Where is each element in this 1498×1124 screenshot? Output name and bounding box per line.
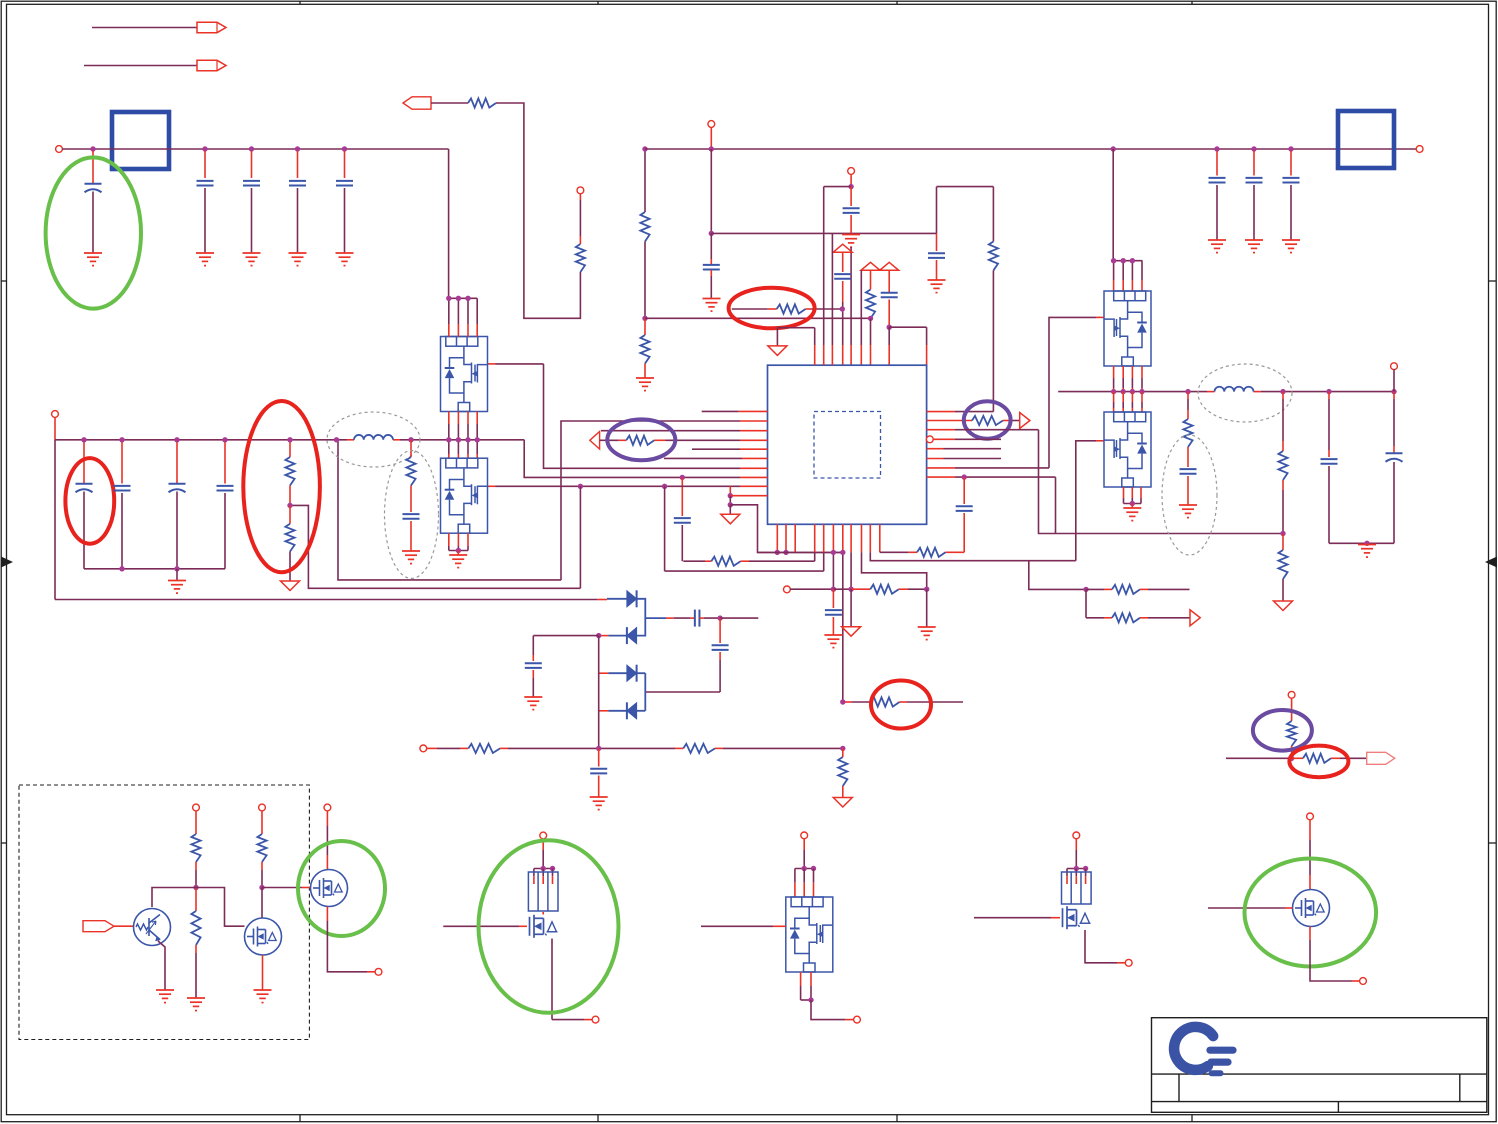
feedback divider x1283 top	[1282, 392, 1284, 399]
ground	[1208, 240, 1226, 253]
IC left pin row 9 from Q-bottom gate	[488, 485, 496, 487]
capacitor x533 branch	[533, 635, 598, 637]
ground	[84, 253, 102, 266]
inductor L2	[1215, 387, 1254, 392]
inductor L1	[354, 435, 393, 440]
resistor R22	[261, 811, 263, 834]
capacitor	[1290, 151, 1292, 176]
title block	[1152, 1018, 1487, 1113]
junction	[1214, 146, 1219, 151]
diode D3	[599, 672, 609, 674]
wire x861	[860, 270, 862, 345]
node terminal	[1360, 978, 1367, 985]
ground	[1245, 240, 1263, 253]
output flag	[1190, 610, 1200, 626]
IC top pin 1 riser + gnd flag	[814, 328, 816, 345]
node terminal	[1125, 959, 1132, 966]
diode D1	[607, 598, 627, 600]
diode D2	[627, 628, 637, 644]
IC left pin row 10 net	[729, 486, 731, 495]
junction	[1251, 146, 1256, 151]
MOSFET M2 (green circled)	[326, 811, 328, 826]
riser to low-side gate right	[1076, 441, 1096, 561]
capacitor C13	[224, 442, 226, 484]
wire y543	[1329, 542, 1394, 544]
wire y327 to corner pin	[889, 326, 926, 328]
IC bottom pin x861	[861, 524, 863, 552]
capacitor C5	[344, 151, 346, 178]
feedback divider x1283 bottom	[1282, 534, 1284, 551]
wire row10 to y552	[730, 505, 843, 553]
ground	[243, 253, 261, 266]
IC U1 thermal pad (dashed)	[814, 412, 881, 479]
resistor chain x411	[410, 440, 412, 457]
gnd flag x851	[850, 589, 852, 627]
capacitor at x851	[850, 187, 852, 206]
junction	[295, 146, 300, 151]
transistor Q10 (BJT)	[134, 909, 171, 946]
capacitor C11	[121, 442, 123, 484]
IC left pin row 2 with riser	[561, 421, 740, 580]
IC right pin E stub	[927, 448, 944, 450]
MOSFET M6 (green circled bottom right)	[1307, 813, 1314, 820]
green ellipse highlight M3	[479, 840, 619, 1013]
junction	[249, 146, 254, 151]
capacitor x1329	[1328, 392, 1330, 399]
MOSFET M3 (green ellipse bottom)	[540, 832, 547, 839]
left bus down x55	[54, 440, 56, 600]
wire x842 mid	[840, 699, 845, 704]
ground	[842, 235, 860, 248]
ground	[449, 555, 467, 568]
node terminal right	[1416, 146, 1423, 153]
dashed box	[19, 785, 309, 1040]
IC left pin row 3	[601, 430, 740, 432]
riser x580	[579, 486, 581, 588]
Q4 source to ground	[1123, 487, 1125, 498]
capacitor drop x964	[963, 477, 965, 504]
red ellipse highlight around C10	[65, 458, 114, 544]
MOSFET Q2 package (left low-side)	[441, 458, 488, 533]
resistor R21	[195, 888, 197, 912]
resistor x870	[870, 270, 872, 289]
ground x926	[926, 589, 928, 627]
dashed ellipse around snubber	[1162, 435, 1217, 555]
Q2 source to ground	[448, 533, 450, 546]
border centre arrows	[1, 557, 1497, 568]
node terminal left	[420, 745, 427, 752]
red ellipse highlight	[1289, 746, 1348, 778]
wire gate M-green	[262, 887, 302, 889]
junction	[287, 437, 292, 442]
wire corner down to Q-block	[448, 149, 450, 298]
node VIN left terminal	[56, 146, 63, 153]
IC bottom pin x842 long	[842, 524, 844, 552]
IC left pin row 4 with resistor	[590, 432, 600, 450]
M3 gate wire	[443, 925, 519, 927]
junction	[1111, 146, 1116, 151]
IC right pin D stub	[926, 436, 933, 443]
ground	[196, 253, 214, 266]
resistor R-sense vertical	[576, 244, 585, 272]
M5 gate wire	[974, 917, 1051, 919]
IC bottom pin x823	[823, 524, 825, 552]
M1 source ground	[262, 955, 264, 990]
green ellipse highlight M2	[298, 841, 385, 936]
node terminal	[193, 804, 200, 811]
IC bottom pin x851	[850, 524, 852, 552]
IC top pin 3 riser	[831, 233, 833, 345]
wire y318 to IC top area	[645, 317, 871, 319]
wire x711 down	[710, 149, 712, 233]
red ellipse highlight around divider	[243, 401, 320, 572]
Q3/Q4 phase bundle	[1113, 366, 1115, 378]
ground	[590, 797, 608, 810]
wire y571	[665, 570, 824, 572]
IC bottom pin x870	[869, 524, 871, 552]
harness arrow (left pointing)	[403, 97, 431, 109]
purple ellipse highlight	[1253, 710, 1312, 751]
ground	[1179, 505, 1197, 518]
node terminal	[324, 804, 331, 811]
dashed ellipse around RC	[385, 451, 439, 579]
node terminal	[592, 1016, 599, 1023]
power port triangle x842	[833, 244, 852, 252]
output port flag	[1367, 752, 1395, 764]
junction	[408, 437, 413, 442]
ground	[1282, 240, 1300, 253]
wire x598 down	[598, 636, 600, 749]
resistor horizontal red circled	[1292, 757, 1303, 759]
purple ellipse highlight left	[607, 419, 675, 460]
harness connector arrow 2	[84, 65, 197, 67]
bottom rail wire	[427, 747, 438, 749]
node terminal	[375, 968, 382, 975]
junction	[119, 437, 124, 442]
junction	[90, 146, 95, 151]
wire x1113 from top bus	[1112, 149, 1114, 261]
capacitor x833 to gnd	[832, 589, 834, 608]
M3 symbol wires	[542, 912, 544, 915]
MOSFET M5 (bottom right open)	[1073, 832, 1080, 839]
ground	[1358, 545, 1376, 558]
ground	[254, 990, 272, 1003]
capacitor	[1253, 151, 1255, 176]
M4 source out	[800, 972, 802, 986]
IC right pin A to resistor chain	[927, 411, 955, 413]
junction	[334, 437, 339, 442]
M6 source wire	[1309, 927, 1311, 941]
node terminal	[854, 1016, 861, 1023]
resistor x993	[992, 187, 994, 242]
dashed ellipse around L1	[327, 412, 420, 467]
junction	[222, 437, 227, 442]
capacitor C3	[251, 151, 253, 178]
series capacitor branch	[645, 617, 666, 619]
resistor vertical purple circled	[1291, 698, 1293, 721]
wire cap bottoms y568	[84, 568, 225, 570]
top bus wire right segment	[645, 148, 1416, 150]
green ellipse highlight M6	[1245, 859, 1377, 967]
wire y233	[711, 232, 936, 234]
ground	[336, 253, 354, 266]
gnd flag	[833, 798, 852, 808]
purple ellipse highlight right	[964, 401, 1011, 438]
node terminal	[577, 187, 584, 194]
capacitor C12 polarized	[176, 442, 178, 483]
resistor R20	[195, 811, 197, 834]
wire R22 to M1 drain	[261, 888, 263, 919]
capacitor x889	[888, 270, 890, 292]
wire y758	[1226, 757, 1292, 759]
capacitor x936	[936, 233, 938, 251]
output resistor pair row2	[1085, 589, 1087, 617]
IC bottom pins short bundle	[776, 524, 778, 552]
top bus wire left segment	[62, 148, 448, 150]
IC top pin 2 riser	[823, 187, 825, 345]
capacitor x1394 polarized	[1393, 392, 1395, 399]
capacitor on row 8 drop	[681, 477, 683, 516]
ground	[289, 253, 307, 266]
IC U1 main controller	[768, 365, 927, 524]
MOSFET Q4 package (right low-side)	[1104, 412, 1151, 487]
IC right pin H	[927, 476, 955, 478]
M5 source out	[1085, 930, 1117, 963]
Q1 drain bundle top	[449, 297, 478, 299]
power port triangle pair 2	[880, 262, 899, 270]
capacitor x598 bottom	[598, 748, 600, 766]
node VCC terminal x711	[708, 121, 715, 128]
ground	[176, 569, 178, 581]
company logo	[1174, 1027, 1233, 1073]
IC left pin row 6	[664, 457, 742, 459]
diode D4	[644, 692, 646, 711]
IC left pin row 8 from bus riser	[524, 440, 740, 478]
dashed ellipse around L2	[1198, 364, 1292, 422]
gnd flag	[281, 581, 300, 591]
wire x851 down to IC	[850, 247, 852, 345]
wire from R-top to node	[496, 103, 580, 318]
harness connector arrow 1	[92, 27, 197, 29]
connector J1 (blue square)	[112, 112, 169, 169]
wire y186 stub	[824, 186, 851, 188]
M4 gate wire	[701, 925, 773, 927]
red ellipse highlight y702	[871, 681, 931, 729]
IC right pin C to y533	[927, 429, 955, 431]
node terminal	[259, 804, 266, 811]
IC left pin row 5	[692, 448, 740, 450]
node terminal	[1288, 691, 1295, 698]
resistor x842 bottom	[838, 757, 847, 786]
junction	[81, 437, 86, 442]
ground	[928, 280, 946, 293]
IC right pin B with resistor + arrow	[927, 420, 972, 422]
MOSFET M1 (circled)	[245, 918, 282, 955]
resistor divider chain x645	[644, 149, 646, 212]
gnd flag	[1274, 601, 1293, 611]
gnd flag	[721, 514, 740, 524]
IC right pin F stub	[927, 458, 944, 460]
ground	[156, 990, 174, 1003]
left bus wire y440	[55, 439, 347, 441]
node SDA terminal	[784, 586, 791, 593]
capacitor	[1216, 151, 1218, 176]
M2 source wire	[326, 907, 328, 922]
junction	[1288, 146, 1293, 151]
M6 gate wire	[1208, 907, 1285, 909]
IC right pin G to high-side gate	[927, 467, 955, 469]
wire y692	[645, 691, 720, 693]
junction	[174, 437, 179, 442]
green ellipse highlight around C1	[46, 157, 141, 308]
junction	[202, 146, 207, 151]
phase rail y391	[1058, 391, 1207, 393]
capacitor x711	[703, 265, 720, 270]
Q1/Q2 phase bundle	[448, 412, 450, 425]
MOSFET Q3 package (right high-side)	[1104, 291, 1151, 366]
wire y589 resistor row	[790, 588, 833, 590]
ground	[187, 998, 205, 1011]
wire collector net	[152, 888, 245, 927]
connector J2 (blue square)	[1338, 111, 1394, 168]
IC bottom pin x814	[814, 524, 816, 552]
red ellipse highlight above IC	[729, 288, 815, 329]
resistor in red ellipse above IC	[732, 308, 768, 310]
wire y588	[290, 505, 580, 588]
ground	[703, 299, 721, 312]
IC bottom pin x879 resistor row	[879, 524, 881, 552]
wire y186 right segment	[937, 186, 994, 188]
input flag	[83, 921, 114, 932]
resistor divider R-fb top	[289, 442, 291, 457]
resistor R-top	[468, 98, 496, 107]
wire y599 long bottom-left	[55, 599, 597, 601]
node VBAT terminal	[52, 411, 59, 418]
MOSFET Q1 package (left high-side)	[441, 337, 488, 412]
junction	[342, 146, 347, 151]
ground	[524, 697, 542, 710]
power port triangle pair 1	[861, 262, 880, 270]
capacitor C10 polarized	[83, 442, 85, 483]
node terminal x851	[848, 168, 855, 175]
wire y579	[338, 440, 561, 580]
node terminal x1394	[1391, 363, 1398, 370]
M3 source out	[551, 939, 553, 1020]
wire y561 left segment	[683, 560, 705, 562]
snubber R x1188	[1187, 392, 1189, 399]
resistor divider R-fb bottom	[289, 505, 291, 523]
ground	[636, 378, 654, 391]
capacitor x842	[834, 274, 851, 279]
ground	[824, 635, 842, 648]
ground	[1123, 508, 1141, 521]
capacitor C2	[204, 151, 206, 178]
capacitor x720	[719, 618, 721, 643]
IC bottom pin x833	[832, 524, 834, 552]
riser x664	[664, 486, 666, 571]
ground	[402, 551, 420, 564]
output resistor pair row1	[1029, 561, 1086, 589]
Q10 emitter to ground	[158, 941, 165, 990]
wire y552	[758, 551, 843, 553]
capacitor C4	[297, 151, 299, 178]
MOSFET M4 package (bottom center)	[801, 832, 808, 839]
IC left pin row 1	[702, 410, 739, 412]
IC left pin row 7 from Q-top gate	[488, 363, 496, 365]
Q3 drain bundle	[1113, 260, 1142, 262]
capacitor C1 (polarized)	[92, 151, 94, 183]
resistor in red ellipse y702	[845, 701, 852, 703]
